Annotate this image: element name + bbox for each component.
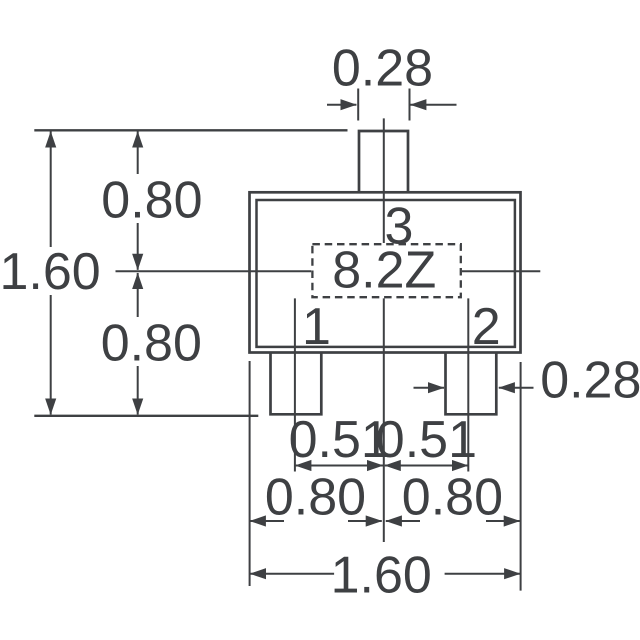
svg-text:1: 1 bbox=[302, 298, 331, 356]
svg-text:2: 2 bbox=[472, 298, 501, 356]
dimension 0.80 bottom-left bbox=[250, 520, 284, 522]
svg-text:0.28: 0.28 bbox=[540, 351, 640, 409]
pin 2 lead (bottom right) bbox=[446, 353, 497, 414]
extension line pin1 center bbox=[294, 298, 296, 471]
pin 3 lead (top) bbox=[359, 131, 408, 192]
dimension 0.51 left bbox=[295, 465, 383, 467]
package body outer outline bbox=[250, 192, 521, 352]
svg-text:1.60: 1.60 bbox=[0, 243, 101, 301]
extension line pin2 center bbox=[467, 298, 469, 471]
horizontal center line bbox=[116, 270, 312, 272]
svg-text:1.60: 1.60 bbox=[331, 547, 432, 605]
svg-text:0.28: 0.28 bbox=[332, 40, 433, 98]
svg-text:0.80: 0.80 bbox=[101, 171, 202, 229]
dimension 0.28 right (pin2 width) bbox=[414, 387, 445, 389]
bottom reference line (lead tips) bbox=[34, 415, 258, 417]
svg-text:0.51: 0.51 bbox=[289, 411, 390, 469]
pin 1 lead (bottom left) bbox=[271, 353, 322, 414]
dimension 1.60 bottom bbox=[250, 573, 334, 575]
dimension 1.60 left vertical bbox=[50, 132, 52, 248]
dimension 0.80 upper-left vertical bbox=[137, 132, 139, 175]
svg-text:0.51: 0.51 bbox=[376, 411, 477, 469]
svg-text:0.80: 0.80 bbox=[265, 469, 366, 527]
extension line package left bbox=[249, 361, 251, 586]
extension line package right bbox=[520, 362, 522, 591]
extension line pin3 right edge bbox=[409, 89, 411, 121]
vertical center line bbox=[383, 118, 385, 243]
dimension 0.28 top (pin3 width) bbox=[327, 104, 356, 106]
svg-text:8.2Z: 8.2Z bbox=[332, 241, 436, 299]
top reference line bbox=[34, 129, 347, 131]
marking box (dashed) bbox=[312, 244, 460, 297]
package body inner outline bbox=[257, 200, 515, 347]
dimension 0.51 right bbox=[385, 465, 468, 467]
dimension 0.80 bottom-right bbox=[386, 520, 420, 522]
dimension 0.80 lower-left vertical bbox=[137, 273, 139, 317]
extension line pin3 left edge bbox=[357, 89, 359, 121]
svg-text:0.80: 0.80 bbox=[402, 469, 503, 527]
svg-text:0.80: 0.80 bbox=[101, 314, 202, 372]
